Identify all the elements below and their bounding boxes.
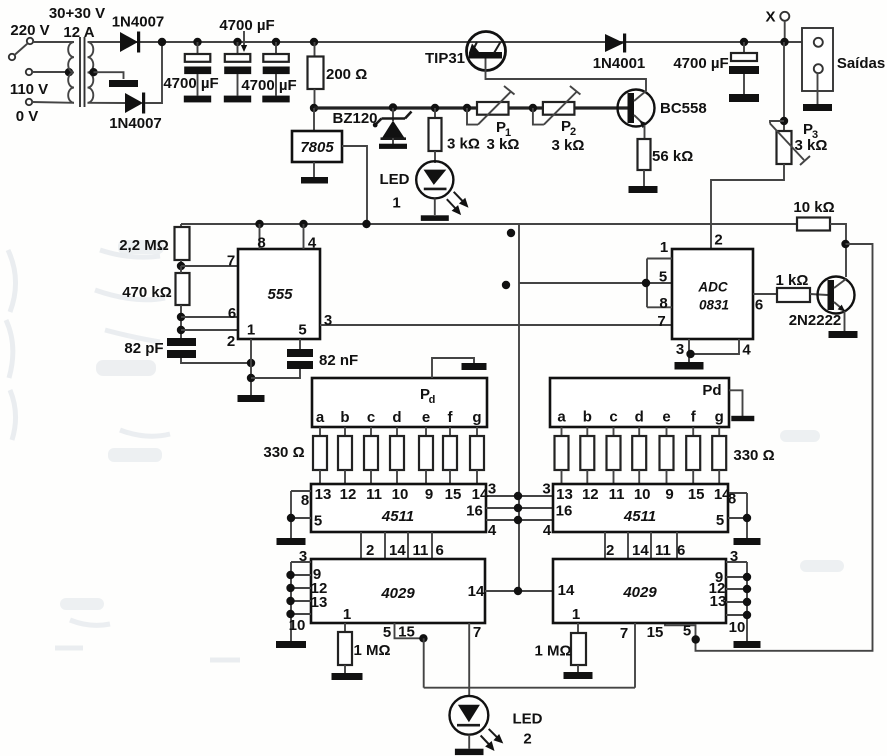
svg-text:10: 10 bbox=[289, 617, 306, 634]
svg-text:a: a bbox=[557, 409, 566, 426]
svg-text:g: g bbox=[715, 409, 724, 426]
svg-text:15: 15 bbox=[688, 486, 705, 503]
svg-text:4700 µF: 4700 µF bbox=[241, 77, 296, 94]
svg-text:4029: 4029 bbox=[622, 584, 657, 601]
svg-text:4: 4 bbox=[308, 235, 317, 252]
svg-text:14: 14 bbox=[472, 486, 489, 503]
svg-text:5: 5 bbox=[298, 322, 306, 339]
svg-text:10: 10 bbox=[392, 486, 409, 503]
svg-text:11: 11 bbox=[609, 486, 625, 503]
svg-text:10 kΩ: 10 kΩ bbox=[793, 199, 834, 216]
svg-text:82 nF: 82 nF bbox=[319, 352, 358, 369]
svg-text:15: 15 bbox=[398, 624, 415, 641]
svg-text:2: 2 bbox=[227, 333, 235, 350]
svg-text:3: 3 bbox=[488, 481, 496, 498]
svg-text:2,2 MΩ: 2,2 MΩ bbox=[119, 237, 169, 254]
svg-text:330 Ω: 330 Ω bbox=[733, 447, 774, 464]
svg-text:13: 13 bbox=[710, 593, 727, 610]
svg-text:11: 11 bbox=[655, 542, 671, 559]
svg-text:200 Ω: 200 Ω bbox=[326, 66, 367, 83]
svg-text:d: d bbox=[429, 394, 436, 406]
svg-text:16: 16 bbox=[556, 503, 573, 520]
svg-text:3: 3 bbox=[542, 481, 550, 498]
svg-text:3: 3 bbox=[676, 341, 684, 358]
svg-text:TIP31: TIP31 bbox=[425, 50, 465, 67]
svg-text:3 kΩ: 3 kΩ bbox=[552, 137, 585, 154]
svg-text:1: 1 bbox=[343, 606, 351, 623]
svg-text:2: 2 bbox=[714, 232, 722, 249]
svg-text:14: 14 bbox=[558, 582, 575, 599]
svg-text:3 kΩ: 3 kΩ bbox=[447, 136, 480, 153]
svg-text:9: 9 bbox=[425, 486, 433, 503]
svg-text:1N4007: 1N4007 bbox=[112, 14, 165, 31]
svg-text:12 A: 12 A bbox=[63, 24, 94, 41]
svg-text:BZ120: BZ120 bbox=[332, 110, 377, 127]
svg-text:555: 555 bbox=[267, 286, 293, 303]
svg-text:BC558: BC558 bbox=[660, 100, 707, 117]
svg-text:5: 5 bbox=[383, 624, 391, 641]
svg-text:13: 13 bbox=[311, 594, 328, 611]
svg-text:10: 10 bbox=[634, 486, 651, 503]
svg-text:3: 3 bbox=[324, 312, 332, 329]
svg-text:1: 1 bbox=[572, 606, 580, 623]
svg-text:9: 9 bbox=[665, 486, 673, 503]
svg-text:X: X bbox=[765, 9, 775, 26]
svg-text:7: 7 bbox=[657, 313, 665, 330]
svg-text:4700 µF: 4700 µF bbox=[219, 17, 274, 34]
svg-text:LED: LED bbox=[380, 171, 410, 188]
svg-text:470 kΩ: 470 kΩ bbox=[122, 284, 172, 301]
svg-text:1N4001: 1N4001 bbox=[593, 55, 646, 72]
svg-text:1 kΩ: 1 kΩ bbox=[776, 272, 809, 289]
svg-text:1: 1 bbox=[392, 195, 400, 212]
svg-text:12: 12 bbox=[582, 486, 599, 503]
svg-text:c: c bbox=[609, 409, 617, 426]
svg-text:4511: 4511 bbox=[623, 508, 656, 525]
svg-text:15: 15 bbox=[647, 624, 664, 641]
svg-text:4700 µF: 4700 µF bbox=[673, 55, 728, 72]
svg-text:LED: LED bbox=[513, 711, 543, 728]
svg-text:4511: 4511 bbox=[381, 508, 414, 525]
svg-text:7: 7 bbox=[227, 253, 235, 270]
svg-text:8: 8 bbox=[257, 235, 265, 252]
svg-text:13: 13 bbox=[556, 486, 573, 503]
svg-text:4: 4 bbox=[742, 342, 751, 359]
svg-text:ADC: ADC bbox=[697, 280, 727, 295]
svg-text:4029: 4029 bbox=[380, 585, 415, 602]
svg-text:5: 5 bbox=[659, 269, 667, 286]
svg-text:b: b bbox=[340, 409, 349, 426]
svg-text:4700 µF: 4700 µF bbox=[163, 75, 218, 92]
svg-text:7: 7 bbox=[620, 625, 628, 642]
svg-text:7: 7 bbox=[473, 624, 481, 641]
svg-text:e: e bbox=[422, 409, 430, 426]
svg-text:3: 3 bbox=[299, 548, 307, 565]
svg-text:Saídas: Saídas bbox=[837, 55, 885, 72]
svg-text:10: 10 bbox=[729, 619, 746, 636]
svg-text:c: c bbox=[367, 409, 375, 426]
svg-text:g: g bbox=[472, 409, 481, 426]
svg-text:6: 6 bbox=[677, 542, 685, 559]
svg-text:4: 4 bbox=[543, 522, 552, 539]
svg-text:5: 5 bbox=[716, 512, 724, 529]
svg-text:1N4007: 1N4007 bbox=[109, 115, 162, 132]
svg-text:12: 12 bbox=[340, 486, 357, 503]
svg-text:e: e bbox=[662, 409, 670, 426]
svg-text:1: 1 bbox=[247, 322, 255, 339]
svg-text:4: 4 bbox=[488, 522, 497, 539]
svg-text:0 V: 0 V bbox=[16, 108, 39, 125]
svg-text:330 Ω: 330 Ω bbox=[263, 444, 304, 461]
svg-text:3 kΩ: 3 kΩ bbox=[487, 136, 520, 153]
svg-text:15: 15 bbox=[445, 486, 462, 503]
svg-text:14: 14 bbox=[389, 542, 406, 559]
svg-text:a: a bbox=[316, 409, 325, 426]
svg-text:2: 2 bbox=[523, 731, 531, 748]
svg-text:6: 6 bbox=[436, 542, 444, 559]
svg-text:d: d bbox=[392, 409, 401, 426]
svg-text:d: d bbox=[635, 409, 644, 426]
svg-text:11: 11 bbox=[413, 542, 429, 559]
svg-text:11: 11 bbox=[366, 486, 382, 503]
svg-text:8: 8 bbox=[301, 492, 309, 509]
svg-text:5: 5 bbox=[683, 623, 691, 640]
svg-text:0831: 0831 bbox=[699, 298, 729, 313]
svg-text:1 MΩ: 1 MΩ bbox=[353, 642, 390, 659]
svg-text:14: 14 bbox=[714, 486, 731, 503]
svg-text:56 kΩ: 56 kΩ bbox=[652, 148, 693, 165]
svg-text:1: 1 bbox=[660, 239, 668, 256]
svg-text:16: 16 bbox=[466, 503, 483, 520]
svg-text:6: 6 bbox=[228, 305, 236, 322]
svg-text:3 kΩ: 3 kΩ bbox=[795, 137, 828, 154]
svg-text:Pd: Pd bbox=[702, 382, 721, 399]
svg-text:14: 14 bbox=[468, 583, 485, 600]
svg-text:3: 3 bbox=[730, 548, 738, 565]
svg-text:30+30 V: 30+30 V bbox=[49, 5, 105, 22]
svg-text:1 MΩ: 1 MΩ bbox=[534, 643, 571, 660]
svg-text:14: 14 bbox=[632, 542, 649, 559]
svg-text:7805: 7805 bbox=[300, 139, 334, 156]
svg-text:220 V: 220 V bbox=[10, 22, 49, 39]
svg-text:2: 2 bbox=[606, 542, 614, 559]
svg-text:13: 13 bbox=[315, 486, 332, 503]
svg-text:110 V: 110 V bbox=[10, 81, 48, 98]
svg-text:2N2222: 2N2222 bbox=[789, 312, 842, 329]
svg-text:b: b bbox=[583, 409, 592, 426]
svg-text:6: 6 bbox=[755, 297, 763, 314]
svg-text:82 pF: 82 pF bbox=[124, 340, 163, 357]
svg-text:5: 5 bbox=[314, 513, 322, 530]
svg-text:8: 8 bbox=[659, 295, 667, 312]
svg-text:2: 2 bbox=[366, 542, 374, 559]
